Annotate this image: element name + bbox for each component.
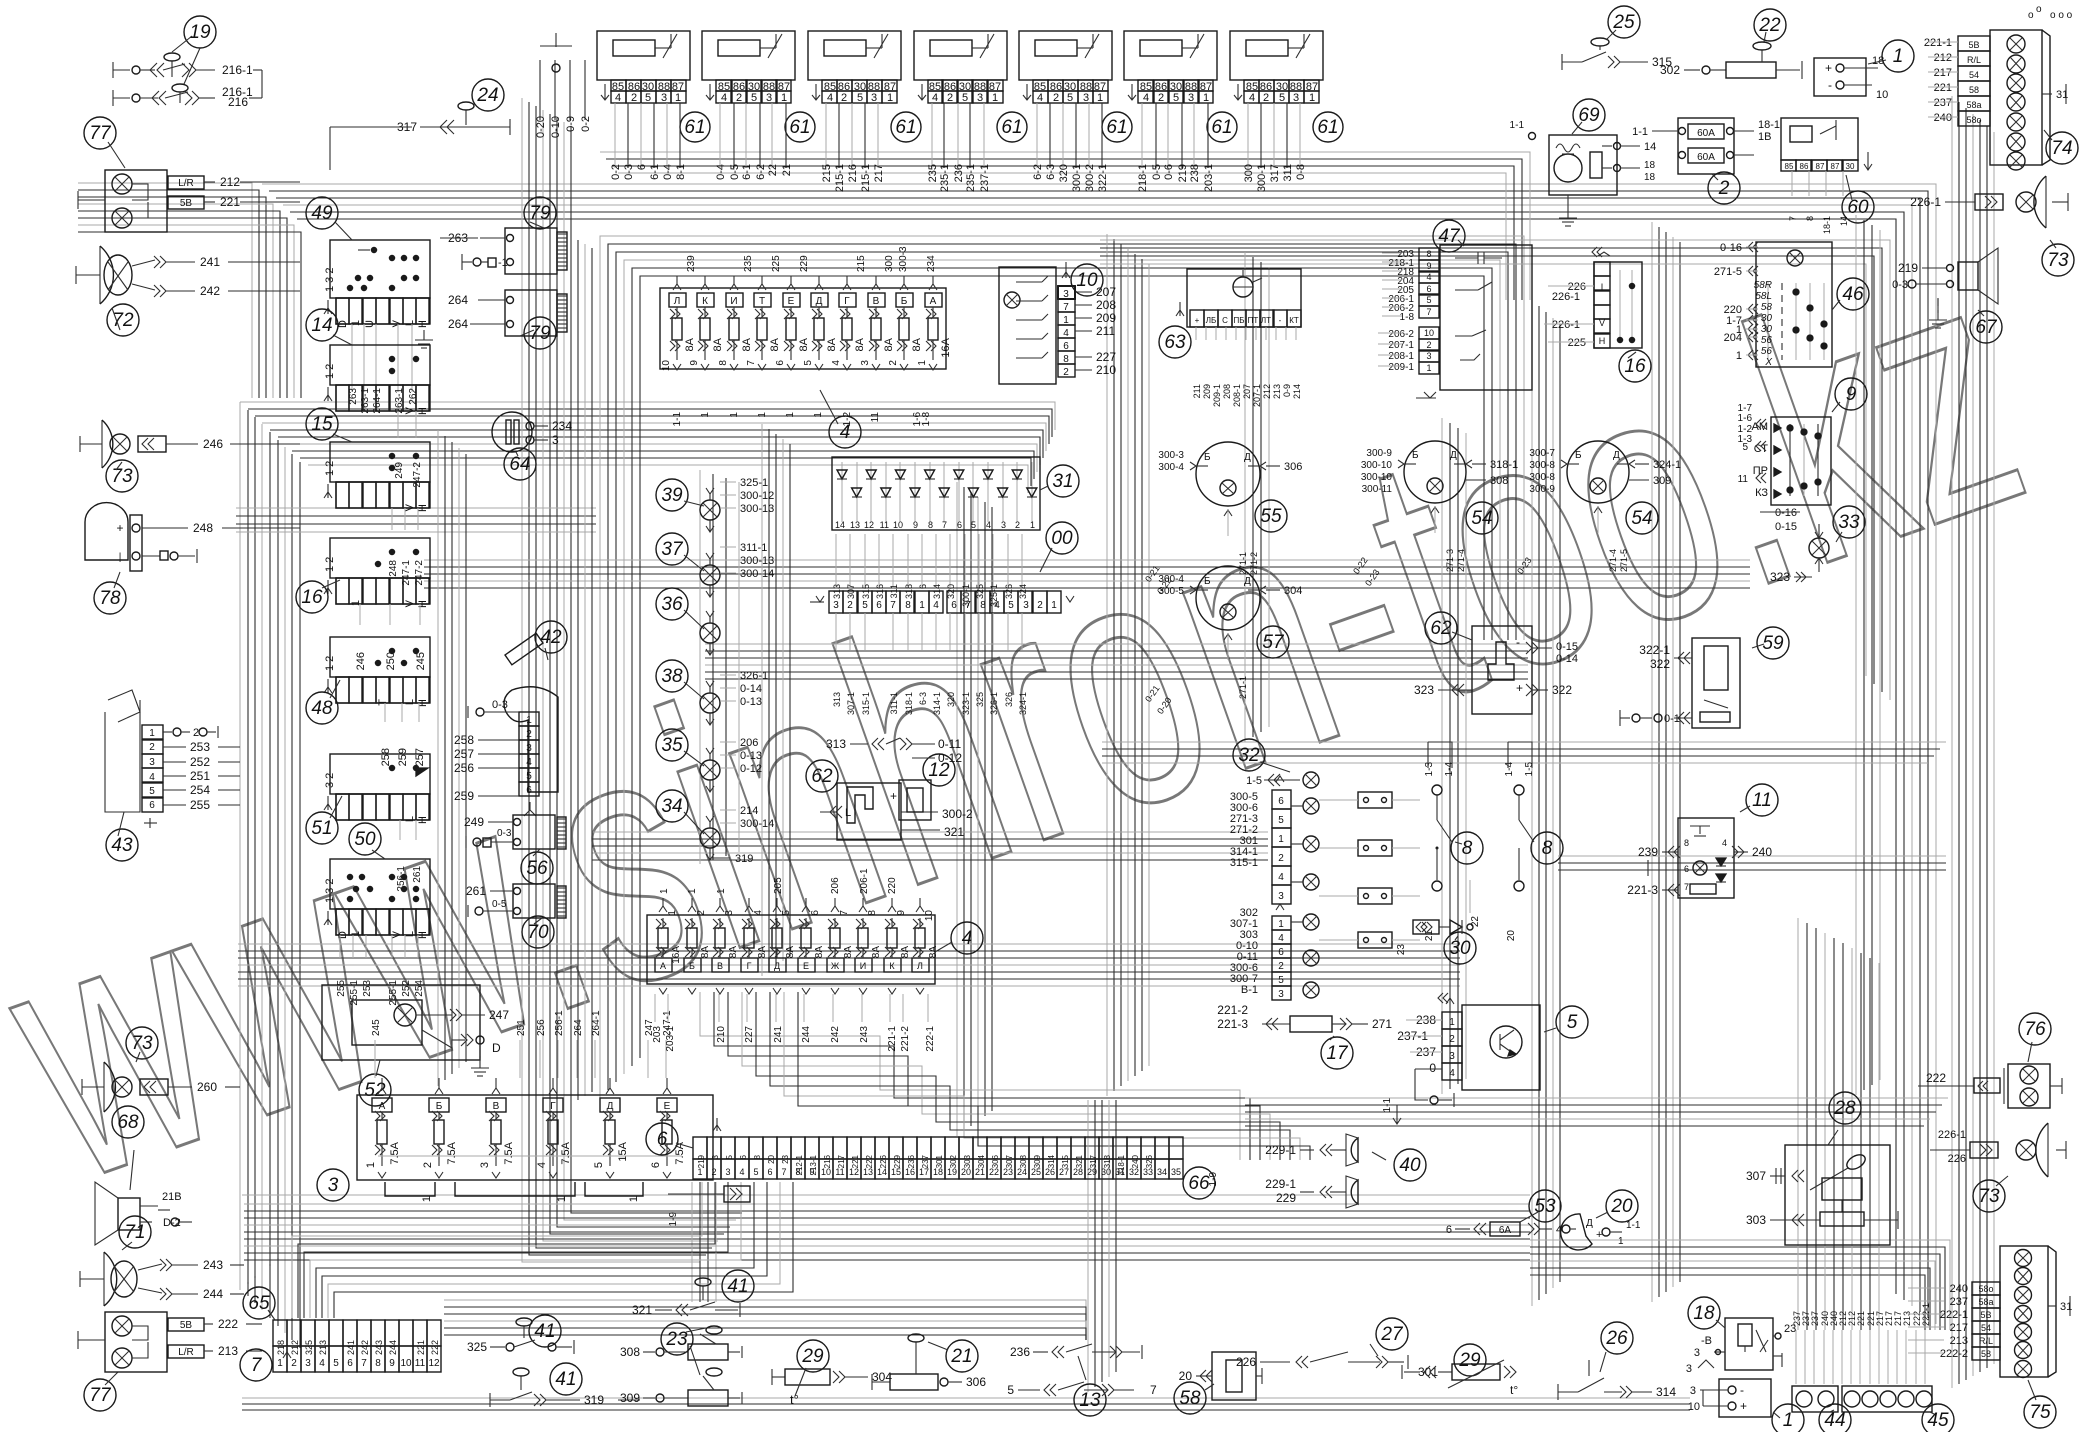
svg-text:2: 2	[1278, 961, 1284, 972]
svg-text:0-3: 0-3	[623, 164, 635, 180]
svg-text:8: 8	[753, 1154, 762, 1159]
callout 13	[1074, 1384, 1106, 1416]
svg-text:ПБ: ПБ	[1234, 316, 1245, 325]
svg-text:323: 323	[1414, 683, 1434, 697]
callout 4	[829, 416, 861, 448]
svg-text:2: 2	[149, 742, 155, 753]
svg-text:8А: 8А	[712, 337, 724, 351]
callout 77	[84, 1379, 116, 1411]
connector strip 66	[693, 1137, 707, 1159]
svg-text:313: 313	[832, 692, 842, 707]
svg-text:60А: 60А	[1697, 128, 1715, 139]
svg-text:Л: Л	[674, 296, 681, 307]
callout 71	[119, 1216, 151, 1248]
svg-text:1 3 2: 1 3 2	[324, 879, 336, 903]
svg-text:8А: 8А	[700, 946, 711, 959]
svg-text:227: 227	[1096, 350, 1116, 364]
svg-text:53: 53	[1534, 1196, 1556, 1217]
svg-text:5: 5	[149, 786, 155, 797]
svg-text:2: 2	[1158, 92, 1164, 104]
svg-text:1: 1	[687, 888, 698, 894]
callout 35	[656, 729, 688, 761]
svg-text:L: L	[404, 320, 416, 326]
svg-text:1: 1	[919, 600, 925, 611]
callout 37	[656, 533, 688, 565]
marker lamp 35	[700, 760, 720, 780]
svg-text:264-1: 264-1	[591, 1010, 602, 1036]
svg-text:48: 48	[311, 698, 333, 719]
svg-text:211: 211	[1192, 384, 1202, 398]
svg-text:1-5: 1-5	[1246, 775, 1262, 787]
svg-text:5: 5	[753, 1167, 758, 1177]
svg-text:241: 241	[200, 255, 220, 269]
svg-text:303: 303	[1746, 1213, 1766, 1227]
svg-text:2: 2	[631, 92, 637, 104]
svg-text:5: 5	[1173, 92, 1179, 104]
callout 9	[1835, 378, 1867, 410]
svg-text:8А: 8А	[928, 946, 939, 959]
svg-text:Д: Д	[1244, 576, 1251, 587]
svg-text:311: 311	[889, 584, 899, 598]
svg-text:8-1: 8-1	[675, 164, 687, 180]
callout 8	[1531, 832, 1563, 864]
svg-text:227: 227	[744, 1026, 755, 1043]
svg-text:61: 61	[1211, 117, 1232, 138]
svg-text:225: 225	[771, 255, 782, 272]
callout 41	[550, 1363, 582, 1395]
switch block 49	[330, 240, 430, 298]
svg-text:318-1: 318-1	[904, 692, 914, 715]
callout 68	[112, 1106, 144, 1138]
svg-text:251: 251	[516, 1019, 527, 1036]
svg-text:5: 5	[803, 360, 814, 366]
svg-text:41: 41	[727, 1276, 748, 1297]
svg-text:271-2: 271-2	[1249, 552, 1259, 575]
svg-text:14: 14	[1839, 216, 1849, 226]
svg-text:1: 1	[1783, 1410, 1794, 1431]
svg-text:3: 3	[977, 92, 983, 104]
svg-text:300-1: 300-1	[1071, 164, 1083, 192]
svg-text:300-10: 300-10	[1361, 472, 1393, 483]
svg-text:301: 301	[935, 1154, 944, 1168]
callout 38	[656, 660, 688, 692]
svg-text:4: 4	[1278, 872, 1284, 883]
svg-text:58L: 58L	[1755, 291, 1772, 302]
svg-text:И: И	[860, 961, 866, 971]
svg-text:311: 311	[1282, 164, 1294, 182]
watermark www.sinhron-too.kz	[0, 190, 2058, 1256]
svg-text:326-1: 326-1	[989, 692, 999, 715]
svg-text:6-2: 6-2	[1032, 164, 1044, 180]
svg-text:306: 306	[991, 1154, 1000, 1168]
svg-text:87: 87	[1831, 162, 1840, 171]
svg-text:250: 250	[385, 652, 397, 670]
switch block 14	[330, 345, 430, 385]
svg-text:3: 3	[766, 92, 772, 104]
svg-text:249: 249	[464, 815, 484, 829]
svg-text:49: 49	[311, 203, 333, 224]
svg-text:0-14: 0-14	[1556, 653, 1578, 665]
svg-text:1B: 1B	[1758, 131, 1771, 143]
svg-text:62: 62	[1430, 618, 1452, 639]
svg-text:315: 315	[1061, 1154, 1070, 1168]
svg-text:14: 14	[1644, 141, 1656, 153]
svg-text:21: 21	[781, 164, 793, 176]
wire bundle bottom right band	[444, 1300, 1086, 1340]
svg-text:3: 3	[871, 92, 877, 104]
wire bundle horizontal mid-upper	[592, 831, 1268, 833]
svg-text:0-4: 0-4	[715, 164, 727, 180]
svg-text:13: 13	[1079, 1390, 1101, 1411]
svg-text:+: +	[1740, 1399, 1747, 1413]
svg-text:325: 325	[975, 692, 985, 707]
svg-text:322-1: 322-1	[1097, 164, 1109, 192]
svg-text:0-11: 0-11	[938, 737, 961, 751]
svg-text:213: 213	[1950, 1335, 1968, 1347]
callout 63	[1159, 326, 1191, 358]
svg-text:31: 31	[1052, 471, 1073, 492]
svg-text:2: 2	[526, 729, 532, 740]
svg-text:2: 2	[1037, 600, 1043, 611]
switch block 16 left	[330, 538, 430, 578]
svg-text:240: 240	[1752, 845, 1772, 859]
svg-text:21: 21	[950, 1346, 972, 1367]
svg-text:300-2: 300-2	[942, 807, 973, 821]
svg-text:244: 244	[203, 1287, 223, 1301]
svg-text:20: 20	[1179, 1369, 1193, 1383]
callout 19	[184, 16, 216, 48]
svg-text:3: 3	[526, 743, 532, 754]
svg-text:247-2: 247-2	[412, 462, 423, 488]
svg-text:67: 67	[1975, 317, 1998, 338]
svg-text:222: 222	[430, 1340, 440, 1355]
svg-text:257: 257	[414, 748, 426, 766]
svg-text:1: 1	[526, 715, 532, 726]
lamp unit 55	[1196, 442, 1260, 506]
svg-text:6: 6	[1446, 1224, 1452, 1236]
svg-text:87: 87	[1816, 162, 1825, 171]
svg-text:216-1: 216-1	[222, 63, 253, 77]
wire bundle vertical x690 bottom	[691, 1182, 693, 1302]
svg-text:85: 85	[1785, 162, 1794, 171]
svg-text:300-13: 300-13	[740, 503, 774, 515]
svg-text:314-1: 314-1	[932, 692, 942, 715]
svg-text:79: 79	[529, 323, 551, 344]
svg-text:21B: 21B	[162, 1191, 182, 1203]
svg-text:226-1: 226-1	[1552, 291, 1580, 303]
callout 67	[1970, 311, 2002, 343]
wire bundle top band	[240, 402, 1055, 430]
callout 60	[1842, 191, 1874, 223]
svg-text:255: 255	[190, 798, 210, 812]
svg-text:243: 243	[374, 1340, 384, 1355]
svg-text:264-1: 264-1	[372, 388, 383, 414]
svg-text:23: 23	[1396, 944, 1407, 956]
svg-text:221-2: 221-2	[1217, 1003, 1248, 1017]
svg-text:+: +	[1825, 61, 1832, 75]
svg-text:1: 1	[667, 910, 678, 916]
svg-text:1-2: 1-2	[842, 412, 853, 427]
svg-text:3: 3	[479, 1162, 491, 1168]
svg-text:241: 241	[346, 1340, 356, 1355]
svg-text:7: 7	[251, 1355, 263, 1376]
svg-text:ЛБ: ЛБ	[1206, 316, 1217, 325]
svg-text:229: 229	[1276, 1191, 1296, 1205]
svg-text:6: 6	[918, 584, 928, 589]
svg-text:249: 249	[394, 462, 405, 479]
svg-text:257: 257	[454, 747, 474, 761]
svg-text:73: 73	[131, 1033, 153, 1054]
svg-text:1: 1	[729, 412, 740, 418]
svg-text:7.5A: 7.5A	[560, 1141, 572, 1164]
svg-text:4: 4	[753, 910, 764, 916]
svg-text:3: 3	[1001, 520, 1006, 530]
svg-text:22: 22	[767, 164, 779, 176]
callout 23	[661, 1323, 693, 1355]
svg-text:86: 86	[1800, 162, 1809, 171]
svg-text:58о: 58о	[1966, 115, 1981, 125]
svg-text:14: 14	[311, 315, 332, 336]
svg-text:1: 1	[1203, 92, 1209, 104]
svg-text:1-4: 1-4	[1504, 762, 1515, 777]
fuse block 4 bottom	[647, 915, 935, 984]
svg-text:215-1: 215-1	[860, 164, 872, 192]
wire bundle horizontal G	[705, 643, 1528, 645]
svg-text:300-2: 300-2	[1084, 164, 1096, 192]
svg-text:58: 58	[1761, 302, 1773, 313]
svg-text:1: 1	[917, 360, 928, 366]
svg-text:8: 8	[1426, 249, 1431, 259]
svg-text:6: 6	[1426, 284, 1431, 294]
svg-text:4: 4	[536, 1162, 548, 1168]
svg-text:30: 30	[1761, 313, 1773, 324]
svg-text:73: 73	[1978, 1186, 2000, 1207]
svg-text:1 2: 1 2	[324, 364, 336, 379]
svg-text:246: 246	[355, 652, 367, 670]
svg-text:Е: Е	[788, 296, 795, 307]
svg-text:321: 321	[944, 825, 964, 839]
svg-text:271-4: 271-4	[1608, 549, 1618, 572]
svg-text:213: 213	[1272, 384, 1282, 399]
svg-text:236: 236	[907, 1154, 916, 1168]
callout 64	[504, 448, 536, 480]
svg-text:4: 4	[831, 360, 842, 366]
switch 10	[999, 267, 1056, 384]
callout 61	[680, 112, 710, 142]
svg-text:300-8: 300-8	[1529, 472, 1555, 483]
svg-text:13: 13	[850, 520, 860, 530]
svg-text:325: 325	[304, 1340, 314, 1355]
svg-text:+: +	[1516, 681, 1523, 695]
svg-text:8: 8	[867, 910, 878, 916]
svg-text:1-9: 1-9	[1208, 1172, 1219, 1187]
svg-text:226: 226	[1948, 1153, 1966, 1165]
svg-text:Б: Б	[1575, 450, 1582, 461]
callout 73	[1973, 1180, 2005, 1212]
wires above relay row left	[539, 60, 541, 120]
svg-text:3: 3	[328, 1175, 339, 1196]
svg-text:239: 239	[686, 255, 697, 272]
svg-text:237: 237	[1950, 1296, 1968, 1308]
svg-text:241: 241	[773, 1026, 784, 1043]
svg-text:3: 3	[305, 1358, 311, 1369]
svg-text:4: 4	[1037, 92, 1043, 104]
svg-text:Б: Б	[901, 296, 908, 307]
svg-text:39: 39	[661, 485, 683, 506]
svg-text:6: 6	[810, 910, 821, 916]
svg-text:0-16: 0-16	[1775, 507, 1797, 519]
svg-text:7.5A: 7.5A	[503, 1141, 515, 1164]
svg-text:8А: 8А	[826, 337, 838, 351]
svg-text:234: 234	[552, 419, 572, 433]
svg-text:14: 14	[835, 520, 845, 530]
svg-text:58: 58	[1179, 1388, 1201, 1409]
svg-text:L/R: L/R	[178, 1347, 194, 1358]
svg-text:1: 1	[992, 92, 998, 104]
svg-text:34: 34	[1157, 1167, 1167, 1177]
svg-text:4: 4	[149, 772, 155, 783]
svg-text:303: 303	[963, 1154, 972, 1168]
wire bundle left mid horizontals	[236, 507, 596, 509]
svg-text:5: 5	[1279, 92, 1285, 104]
svg-text:314: 314	[1656, 1385, 1676, 1399]
svg-text:5: 5	[862, 600, 868, 611]
wire bundle staircase 66 to 65	[292, 1182, 702, 1318]
svg-text:300-5: 300-5	[1158, 586, 1184, 597]
svg-text:240: 240	[1131, 1154, 1140, 1168]
svg-text:235-1: 235-1	[939, 164, 951, 192]
svg-text:1-4: 1-4	[1444, 762, 1455, 777]
svg-text:D: D	[492, 1041, 501, 1055]
svg-text:41: 41	[534, 1321, 555, 1342]
svg-text:18: 18	[1693, 1303, 1715, 1324]
svg-text:65: 65	[248, 1293, 270, 1314]
svg-text:5B: 5B	[1968, 40, 1979, 50]
svg-text:54: 54	[1631, 508, 1652, 529]
svg-text:264: 264	[573, 1019, 584, 1036]
callout 61	[997, 112, 1027, 142]
svg-text:7: 7	[1426, 307, 1431, 317]
svg-text:213-1: 213-1	[809, 1154, 818, 1175]
svg-text:323-1: 323-1	[961, 692, 971, 715]
relay K1 (61)	[597, 31, 690, 80]
svg-text:1: 1	[149, 728, 155, 739]
svg-text:16: 16	[301, 587, 323, 608]
svg-text:7: 7	[1788, 216, 1798, 221]
connector 00	[829, 591, 843, 613]
svg-text:214: 214	[740, 805, 758, 817]
svg-text:6: 6	[957, 520, 962, 530]
switch block 50	[330, 859, 430, 909]
callout 22	[1754, 9, 1786, 41]
svg-text:8: 8	[928, 520, 933, 530]
svg-text:R/L: R/L	[1967, 55, 1981, 65]
relay K3 (61)	[808, 31, 901, 80]
svg-text:326: 326	[1145, 1154, 1154, 1168]
svg-text:255-1: 255-1	[349, 980, 360, 1006]
svg-text:57: 57	[1262, 632, 1285, 653]
svg-text:8: 8	[1805, 216, 1815, 221]
svg-text:236: 236	[953, 164, 965, 182]
svg-text:300-1: 300-1	[961, 584, 971, 607]
callout 31	[1047, 465, 1079, 497]
svg-text:Е: Е	[803, 961, 809, 971]
callout 62	[1425, 612, 1457, 644]
svg-text:3: 3	[1188, 92, 1194, 104]
relay K7 (61)	[1230, 31, 1323, 80]
svg-text:313: 313	[826, 737, 846, 751]
svg-text:55: 55	[1260, 506, 1282, 527]
svg-text:203-1: 203-1	[1203, 164, 1215, 192]
svg-text:212: 212	[1934, 52, 1952, 64]
svg-text:Б: Б	[436, 1101, 443, 1112]
svg-text:1: 1	[1618, 1236, 1624, 1247]
svg-text:18-1: 18-1	[1822, 216, 1832, 234]
svg-text:22: 22	[1470, 916, 1481, 928]
svg-text:317: 317	[1089, 1154, 1098, 1168]
svg-text:1: 1	[277, 1358, 283, 1369]
callout 75	[2024, 1396, 2056, 1428]
svg-text:237-1: 237-1	[979, 164, 991, 192]
svg-text:1-8: 1-8	[1400, 312, 1415, 323]
svg-text:2: 2	[1426, 340, 1431, 350]
svg-text:2: 2	[1449, 1034, 1455, 1045]
svg-text:8: 8	[980, 600, 986, 611]
svg-text:2: 2	[947, 92, 953, 104]
svg-text:229-1: 229-1	[1265, 1177, 1296, 1191]
marker lamp 39	[700, 500, 720, 520]
svg-text:58R: 58R	[1754, 280, 1772, 291]
svg-text:10: 10	[924, 910, 935, 922]
svg-text:0-12: 0-12	[938, 751, 962, 765]
svg-text:3: 3	[149, 757, 155, 768]
svg-text:5B: 5B	[180, 198, 193, 209]
callout 11	[1746, 784, 1778, 816]
callout 00	[1046, 522, 1078, 554]
callout 53	[1529, 1190, 1561, 1222]
svg-text:6: 6	[636, 164, 648, 170]
svg-text:11: 11	[1752, 790, 1772, 811]
svg-text:00: 00	[1051, 528, 1073, 549]
svg-text:Д: Д	[1586, 1218, 1593, 1229]
callout 76	[2019, 1013, 2051, 1045]
svg-text:260: 260	[197, 1080, 217, 1094]
svg-text:2: 2	[736, 92, 742, 104]
svg-text:0-15: 0-15	[1775, 521, 1797, 533]
svg-text:209-1: 209-1	[1212, 384, 1222, 407]
svg-text:1: 1	[1736, 350, 1742, 362]
svg-text:321: 321	[632, 1303, 652, 1317]
svg-text:27: 27	[1380, 1324, 1404, 1345]
callout 18	[1688, 1297, 1720, 1329]
svg-text:318: 318	[1103, 1154, 1112, 1168]
svg-text:206: 206	[740, 737, 758, 749]
svg-text:234: 234	[926, 255, 937, 272]
svg-text:12: 12	[864, 520, 874, 530]
svg-text:0-3: 0-3	[492, 699, 508, 711]
svg-text:1: 1	[1097, 92, 1103, 104]
svg-text:41: 41	[555, 1369, 576, 1390]
wire bundle horizontal y855 right	[1558, 855, 1946, 857]
svg-text:207: 207	[1096, 285, 1116, 299]
svg-text:Д: Д	[816, 296, 823, 307]
svg-text:К: К	[702, 296, 708, 307]
svg-text:V: V	[1599, 318, 1605, 328]
svg-text:56: 56	[1761, 346, 1773, 357]
callout 21	[946, 1340, 978, 1372]
svg-text:207: 207	[1242, 384, 1252, 399]
wires to connectors 44/45	[1795, 1330, 1797, 1384]
